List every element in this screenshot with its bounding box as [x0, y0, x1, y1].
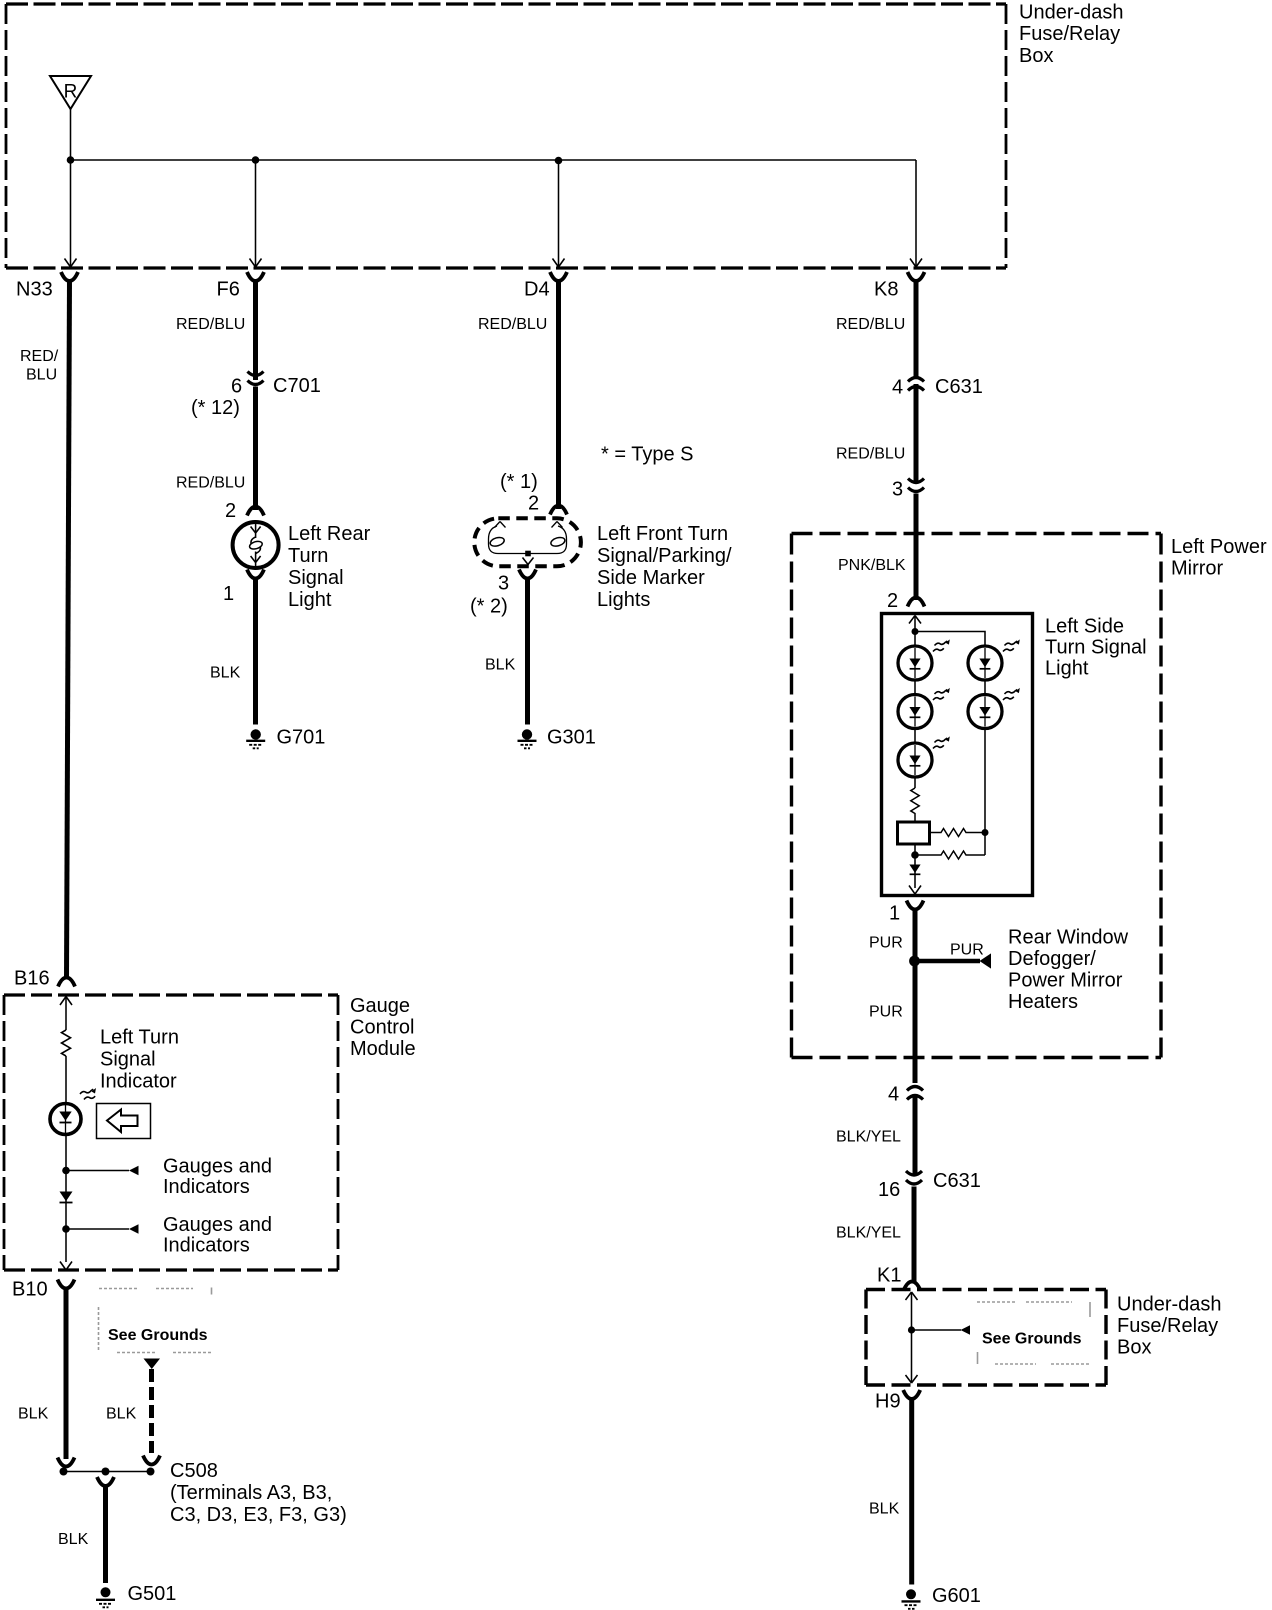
svg-text:Module: Module [350, 1038, 416, 1060]
label: Left Side Turn Signal Light [1045, 616, 1147, 680]
svg-text:Mirror: Mirror [1171, 558, 1224, 580]
wire right chain down to resistor 2 [984, 833, 986, 856]
svg-text:D4: D4 [524, 279, 550, 301]
svg-text:C3, D3, E3, F3, G3): C3, D3, E3, F3, G3) [170, 1504, 347, 1526]
wire K8 to C631 (RED/BLU) [914, 279, 919, 378]
wire C631 to K1 (BLK/YEL) [912, 1187, 917, 1284]
svg-text:B10: B10 [12, 1279, 48, 1301]
svg-text:K1: K1 [877, 1265, 901, 1287]
wire: branch arrow to Gauges and Indicators 2 [66, 1228, 129, 1230]
svg-text:Left Front Turn: Left Front Turn [597, 523, 728, 545]
svg-text:16: 16 [878, 1179, 900, 1201]
svg-text:N33: N33 [16, 279, 53, 301]
left power mirror box (dashed) [792, 534, 1162, 1058]
wire: module exit down arrow [60, 1262, 72, 1271]
wire: drop to D4 with arrow [553, 161, 565, 268]
wire N33 to B16 (RED/BLU) [67, 279, 70, 979]
svg-text:RED/BLU: RED/BLU [836, 316, 905, 333]
wire C701 to lamp (RED/BLU) [253, 387, 258, 511]
node: bus junction at N33 drop [67, 156, 75, 164]
svg-text:RED/BLU: RED/BLU [836, 446, 905, 463]
svg-text:BLK: BLK [869, 1501, 900, 1518]
node: PUR branch junction [909, 956, 920, 967]
svg-text:RED/BLU: RED/BLU [478, 316, 547, 333]
node: junction right chain / resistor 1 [982, 829, 989, 836]
node: C508 junction dots [60, 1468, 68, 1476]
wire H9 to G601 (BLK) [909, 1397, 914, 1585]
lamp: left front turn signal / parking / side marker (dashed stadium) [474, 518, 581, 566]
label: Left Rear Turn Signal Light [288, 523, 371, 611]
wire: drop to N33 with arrow [65, 160, 77, 267]
svg-text:R: R [64, 82, 78, 103]
svg-text:4: 4 [892, 377, 903, 399]
under-dash fuse/relay box (bottom, dashed) [866, 1290, 1106, 1386]
LED R2 [968, 688, 1020, 729]
ground G301 [522, 729, 532, 739]
svg-text:BLK: BLK [485, 657, 516, 674]
svg-text:3: 3 [892, 479, 903, 501]
svg-text:G701: G701 [277, 727, 326, 749]
svg-text:Turn Signal: Turn Signal [1045, 637, 1147, 659]
svg-text:RED/BLU: RED/BLU [176, 475, 245, 492]
label: C508 terminals [170, 1460, 347, 1526]
wire: bulb exit arrow [523, 558, 534, 565]
bulb internals [489, 522, 567, 554]
wire: resistor to LED [65, 1056, 67, 1104]
svg-text:Gauge: Gauge [350, 995, 410, 1017]
svg-text:Light: Light [288, 589, 332, 611]
relay symbol R (triangle) [50, 76, 91, 109]
svg-text:(Terminals A3, B3,: (Terminals A3, B3, [170, 1482, 332, 1504]
wire pin4 to C631 (BLK/YEL) [913, 1094, 918, 1176]
wire to G501 (BLK) [103, 1484, 108, 1583]
svg-text:K8: K8 [874, 279, 898, 301]
label: Rear Window Defogger / Power Mirror Heaters [1008, 927, 1129, 1014]
svg-text:Signal: Signal [288, 567, 344, 589]
under-dash fuse/relay box (top) [6, 4, 1006, 268]
svg-text:C631: C631 [933, 1170, 981, 1192]
label: Gauge Control Module [350, 995, 416, 1060]
dashed wire BLK to C508 [149, 1369, 154, 1453]
connector C701 pin 6 [248, 372, 264, 376]
svg-text:Heaters: Heaters [1008, 991, 1078, 1013]
wire: internal bus horizontal [71, 159, 917, 161]
wire: bus corner drop to K8 with arrow [910, 160, 922, 267]
svg-text:Left Rear: Left Rear [288, 523, 371, 545]
svg-text:Under-dash: Under-dash [1019, 2, 1124, 24]
node: bulb common junction [525, 551, 531, 557]
svg-text:PNK/BLK: PNK/BLK [838, 557, 906, 574]
svg-text:(* 2): (* 2) [470, 596, 508, 618]
node: see grounds junction [908, 1326, 915, 1333]
LED L2 [898, 688, 950, 729]
relay block (mirror) [898, 822, 930, 844]
svg-text:Power Mirror: Power Mirror [1008, 970, 1123, 992]
svg-text:2: 2 [528, 493, 539, 515]
wire: branch arrow to Gauges and Indicators 1 [66, 1170, 129, 1172]
node: junction (gauges branch 1) [62, 1167, 70, 1175]
terminal at C508 (left wire) [58, 1458, 75, 1467]
connector C631 pin 16 (down) [906, 1171, 922, 1175]
svg-text:Signal/Parking/: Signal/Parking/ [597, 545, 732, 567]
node: junction (gauges branch 2) [62, 1225, 70, 1233]
svg-text:6: 6 [231, 376, 242, 398]
indicator icon (left arrow in box) [97, 1104, 151, 1139]
svg-text:See Grounds: See Grounds [982, 1331, 1082, 1348]
wire: drop to F6 with arrow [250, 160, 262, 267]
svg-text:PUR: PUR [869, 935, 903, 952]
svg-text:BLK: BLK [18, 1406, 49, 1423]
svg-text:C631: C631 [935, 376, 983, 398]
ground G701 [251, 729, 261, 739]
wire: inner box entry arrow [909, 616, 921, 789]
wire: C508 junction bar [64, 1471, 152, 1473]
svg-text:(* 12): (* 12) [191, 397, 240, 419]
wire LED down [65, 1134, 67, 1262]
svg-text:RED/: RED/ [20, 348, 59, 365]
LED L1 [898, 639, 950, 680]
svg-text:B16: B16 [14, 968, 50, 990]
faint erased box (left see grounds) [99, 1288, 213, 1353]
svg-text:BLK/YEL: BLK/YEL [836, 1129, 901, 1146]
svg-text:Fuse/Relay: Fuse/Relay [1117, 1315, 1218, 1337]
svg-text:Control: Control [350, 1017, 414, 1039]
ground G601 [906, 1589, 916, 1599]
svg-text:Indicators: Indicators [163, 1176, 250, 1198]
svg-text:BLU: BLU [26, 367, 57, 384]
wire lamp to G301 (BLK) [525, 577, 530, 725]
svg-text:PUR: PUR [869, 1004, 903, 1021]
wire below relay block [914, 844, 916, 888]
resistor (mirror, vertical) [911, 788, 919, 822]
label: Left Turn Signal Indicator [100, 1027, 179, 1093]
wire: inner box exit arrow [909, 886, 921, 895]
svg-text:See Grounds: See Grounds [108, 1327, 208, 1344]
label: Left Power Mirror [1171, 536, 1267, 580]
node: bus junction at D4 drop [555, 157, 563, 165]
svg-text:2: 2 [225, 500, 236, 522]
wire: branch to rear window defogger (PUR) [915, 959, 981, 964]
LED light squiggle arrows [80, 1089, 95, 1099]
svg-text:Gauges and: Gauges and [163, 1214, 272, 1236]
svg-text:G501: G501 [128, 1583, 177, 1605]
svg-text:Signal: Signal [100, 1049, 156, 1071]
label: Left Front Turn Signal/Parking/Side Marker Lights [597, 523, 732, 611]
svg-text:Turn: Turn [288, 545, 328, 567]
resistor (mirror, horizontal 1) [930, 829, 986, 837]
diode (gauge module) [60, 1192, 73, 1202]
LED circle (left turn signal indicator) [50, 1104, 81, 1135]
svg-text:Left Turn: Left Turn [100, 1027, 179, 1049]
wire: R triangle to bus [70, 109, 72, 160]
svg-text:Light: Light [1045, 658, 1089, 680]
LED R1 [968, 639, 1020, 680]
wire: arrow to see grounds [912, 1329, 962, 1331]
wire pin3 into mirror box (PNK/BLK) [914, 494, 919, 601]
wire: box entry arrow / internal line [906, 1292, 918, 1383]
label: Under-dash Fuse/Relay Box (top right) [1019, 2, 1124, 68]
wire D4 to lamp (RED/BLU) [556, 279, 561, 509]
svg-text:F6: F6 [217, 279, 240, 301]
svg-text:1: 1 [223, 583, 234, 605]
svg-text:H9: H9 [875, 1391, 901, 1413]
diode (mirror) [909, 865, 920, 874]
resistor (mirror, horizontal 2) [915, 851, 985, 859]
svg-text:PUR: PUR [950, 942, 984, 959]
svg-text:RED/BLU: RED/BLU [176, 316, 245, 333]
svg-text:G301: G301 [547, 727, 596, 749]
terminal at C508 (dashed wire) [143, 1456, 160, 1465]
svg-text:BLK: BLK [210, 665, 241, 682]
svg-text:Box: Box [1019, 45, 1053, 67]
svg-text:Left Side: Left Side [1045, 616, 1124, 638]
faint erased marks (bottom box) [977, 1302, 1090, 1364]
wire C631 to pin3 (RED/BLU) [914, 384, 919, 482]
svg-text:Under-dash: Under-dash [1117, 1294, 1222, 1316]
ground G501 [101, 1587, 111, 1597]
svg-text:Indicators: Indicators [163, 1235, 250, 1257]
lamp: left rear turn signal light [233, 522, 279, 568]
svg-text:Defogger/: Defogger/ [1008, 948, 1096, 970]
svg-text:BLK: BLK [58, 1531, 89, 1548]
wire B10 down (BLK) [64, 1287, 69, 1460]
left side turn signal light inner box [882, 614, 1033, 896]
terminal below C508 [97, 1477, 114, 1486]
svg-text:4: 4 [888, 1084, 899, 1106]
LED L3 [898, 736, 950, 777]
wire F6 to C701 (RED/BLU) [253, 279, 258, 380]
svg-text:Lights: Lights [597, 589, 650, 611]
svg-text:Box: Box [1117, 1337, 1151, 1359]
gauge control module box (dashed) [4, 995, 338, 1270]
node: bus junction at F6 drop [252, 156, 260, 164]
arrow to dashed ground wire [144, 1359, 161, 1370]
svg-text:3: 3 [498, 573, 509, 595]
svg-text:C701: C701 [273, 375, 321, 397]
svg-text:Side Marker: Side Marker [597, 567, 705, 589]
svg-text:* = Type S: * = Type S [601, 444, 693, 466]
resistor (gauge module) [62, 1030, 71, 1056]
connector pin 3 (mirror, down) [908, 479, 924, 483]
svg-text:Fuse/Relay: Fuse/Relay [1019, 23, 1120, 45]
svg-text:Gauges and: Gauges and [163, 1156, 272, 1178]
node: junction below relay [911, 851, 919, 859]
connector C631 pin 4 (up) [908, 378, 924, 382]
svg-text:Left Power: Left Power [1171, 536, 1267, 558]
svg-text:BLK/YEL: BLK/YEL [836, 1225, 901, 1242]
label: Under-dash Fuse/Relay Box (bottom) [1117, 1294, 1222, 1359]
wire mirror to exit (PUR) [913, 908, 918, 1084]
svg-text:1: 1 [889, 903, 900, 925]
svg-text:C508: C508 [170, 1460, 218, 1482]
wire: module entry with up arrow [60, 997, 72, 1031]
svg-text:2: 2 [887, 590, 898, 612]
svg-text:Indicator: Indicator [100, 1071, 177, 1093]
connector pin 4 (up) below mirror box [907, 1087, 923, 1091]
svg-text:(* 1): (* 1) [500, 471, 538, 493]
node: junction to right LED chain [912, 628, 919, 635]
svg-text:G601: G601 [932, 1585, 981, 1607]
svg-text:Rear Window: Rear Window [1008, 927, 1129, 949]
wire lamp to G701 (BLK) [253, 577, 258, 725]
svg-text:BLK: BLK [106, 1406, 137, 1423]
